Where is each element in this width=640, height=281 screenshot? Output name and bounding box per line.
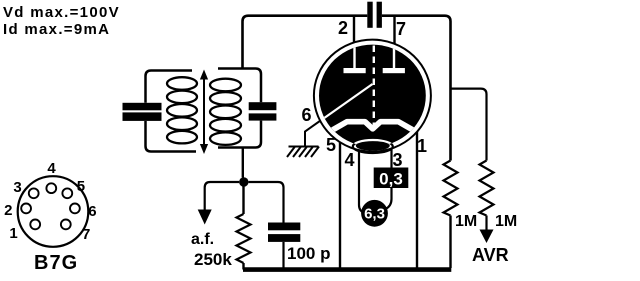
wire: R1 bottom to ground bus [242, 263, 244, 270]
svg-text:7: 7 [82, 226, 90, 243]
svg-text:2: 2 [338, 18, 348, 38]
wire: right tank bottom to junction [242, 148, 244, 178]
ground bus wire (thick bottom line) [243, 267, 451, 272]
svg-text:2: 2 [4, 202, 12, 219]
coupling arrow between coils [200, 70, 208, 155]
pin 6 shield diagonal (white, inside) [320, 84, 373, 121]
anode lead pin 7 (white, inside) [393, 42, 395, 69]
cathode band (double chevron) [333, 122, 414, 130]
svg-text:B7G: B7G [34, 252, 78, 274]
anode plate (right diode) [383, 68, 405, 73]
inductor L1 (left coil) [167, 77, 197, 143]
svg-text:1: 1 [9, 225, 17, 242]
wire: pin 5 lead to bus [339, 140, 341, 269]
B7G pin hole 6 [70, 204, 80, 214]
B7G pin hole 7 [61, 220, 71, 230]
wire: top bus left segment (tank top to coupling cap C2) [243, 16, 368, 70]
svg-text:250k: 250k [194, 250, 232, 269]
svg-text:1: 1 [417, 136, 427, 156]
B7G pin hole 3 [29, 188, 39, 198]
svg-text:Id max.=9mA: Id max.=9mA [3, 21, 110, 38]
wire: R2 bottom to bus [449, 216, 451, 269]
wire: heater pin 4 lead [359, 151, 365, 214]
pinch seam inner black [356, 141, 390, 151]
wire: pin 1 lead to bus [416, 128, 418, 269]
svg-text:Vd max.=100V: Vd max.=100V [3, 4, 120, 21]
tube V1 envelope [314, 40, 431, 152]
svg-text:AVR: AVR [472, 245, 509, 265]
center shield dashed line [373, 46, 375, 128]
svg-text:3: 3 [13, 179, 21, 196]
anode plate (left diode) [344, 68, 366, 73]
wire: heater pin 3 lead [386, 149, 392, 210]
wire: top bus right segment (C2 to right vertical) [382, 16, 451, 161]
svg-text:100 p: 100 p [287, 244, 330, 263]
capacitor C2 (top coupling capacitor) plates [367, 2, 372, 28]
svg-text:1M: 1M [455, 213, 477, 230]
svg-text:5: 5 [326, 135, 336, 155]
svg-text:6: 6 [301, 105, 311, 125]
anode lead pin 2 (white, inside) [353, 42, 355, 69]
wire: AVR branch from right vertical [451, 89, 487, 161]
wire: junction to a.f. arrow [205, 182, 240, 210]
resistor R2 1M (left) [444, 161, 458, 216]
svg-text:3: 3 [392, 150, 402, 170]
B7G socket circle [18, 176, 89, 247]
ground symbol at pin 6 [287, 120, 322, 158]
tube V1 internal disc [319, 45, 426, 147]
wire: pin 7 stub [393, 16, 395, 46]
B7G pin hole 4 [46, 183, 56, 193]
svg-text:6,3: 6,3 [364, 206, 385, 223]
wire: C3 bottom to ground bus [282, 242, 284, 270]
resistor R3 1M (right) [480, 161, 494, 216]
wire: R3 bottom to AVR arrow [485, 216, 487, 231]
B7G pin hole 2 [21, 204, 31, 214]
wire: pin 2 stub [353, 16, 355, 46]
pinch seam ellipse (black outside envelope) [353, 140, 393, 153]
wire: junction down to R1 [242, 187, 244, 215]
pinch seam ellipse (white inside envelope) [353, 140, 393, 153]
B7G pin hole 1 [30, 220, 40, 230]
svg-text:0,3: 0,3 [379, 170, 403, 189]
svg-text:a.f.: a.f. [191, 231, 214, 248]
node junction dot [239, 177, 248, 186]
transformer T1 left tank loop outline [146, 71, 197, 152]
B7G pin hole 5 [62, 188, 72, 198]
svg-text:1M: 1M [495, 213, 517, 230]
capacitor C3 100p plates [268, 223, 300, 231]
transformer T1 right tank loop outline [218, 69, 261, 148]
AVR output arrow [480, 230, 494, 244]
heater voltage circle 6,3 [361, 200, 388, 227]
capacitor (right tank) plates [249, 102, 277, 110]
a.f. output arrow [198, 210, 212, 225]
resistor R1 250k [237, 214, 251, 263]
capacitor (left tank) plates [123, 103, 162, 111]
heater current box 0,3 [374, 168, 409, 189]
inductor L2 (right coil) [210, 79, 241, 145]
wire: junction to C3 [249, 182, 284, 223]
svg-text:7: 7 [396, 19, 406, 39]
svg-text:5: 5 [77, 178, 85, 195]
svg-text:4: 4 [47, 160, 56, 177]
svg-text:6: 6 [88, 203, 96, 220]
svg-text:4: 4 [344, 150, 354, 170]
